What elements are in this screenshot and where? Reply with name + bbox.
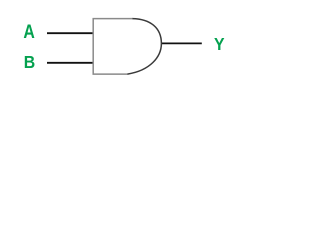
svg-text:B: B bbox=[24, 52, 35, 72]
svg-text:A: A bbox=[23, 21, 35, 43]
svg-text:Y: Y bbox=[214, 34, 225, 54]
